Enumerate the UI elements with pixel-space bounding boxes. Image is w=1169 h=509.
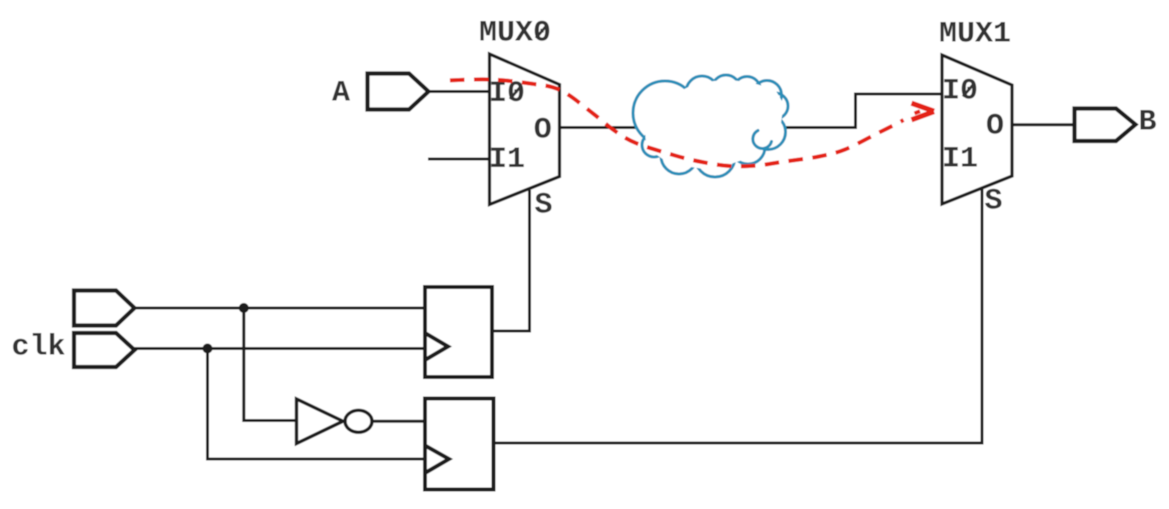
flip-flop FF1 [425,287,492,377]
mux MUX0 [490,54,560,205]
svg-text:A: A [332,77,350,111]
flip-flop FF2 [425,399,494,490]
slash in MUX0 zero [536,25,548,39]
junction dot on bottom clk wire [203,344,213,354]
wire junction down to inverter input [244,308,296,421]
svg-text:O: O [534,114,552,148]
red arrowhead [912,103,935,120]
mux MUX1 [942,55,1012,204]
wire A to MUX0 I0 [426,90,490,93]
svg-text:B: B [1139,106,1157,140]
svg-text:MUX1: MUX1 [939,18,1011,52]
slash in I0 zero (MUX1) [963,83,975,97]
junction dot on top clk wire [239,303,249,313]
svg-text:S: S [985,185,1003,219]
wire clk top to FF1 D [132,307,425,310]
wire FF1 Q to MUX0 S [492,190,530,331]
wire inverter to FF2 D [372,420,425,423]
wire stub to MUX0 I1 [428,158,490,161]
cloud (combinational logic) [633,75,788,177]
wire junction down to FF2 clock [208,349,426,460]
wire MUX1 O to port B [1012,123,1076,126]
svg-text:O: O [986,110,1004,144]
svg-text:I1: I1 [489,143,525,177]
svg-text:S: S [535,189,553,223]
svg-text:I1: I1 [942,143,978,177]
wire cloud to MUX1 I0 (with step) [786,94,942,128]
input port clk (top) [74,291,135,326]
cloud inner curl [753,131,772,149]
input port A [368,74,429,110]
output port B [1075,109,1136,142]
wire clk bottom to FF1 clock [132,347,425,350]
wire FF2 Q to MUX1 S [494,189,983,443]
svg-text:clk: clk [12,331,66,365]
inverter (NOT gate) [297,399,373,444]
red dashed timing path [446,79,904,166]
cloud interior cover [643,80,783,171]
wire MUX0 O to cloud [560,126,641,129]
svg-text:I0: I0 [942,75,978,109]
input port clk (bottom) [74,333,135,367]
slash in I0 zero (MUX0) [510,86,522,100]
